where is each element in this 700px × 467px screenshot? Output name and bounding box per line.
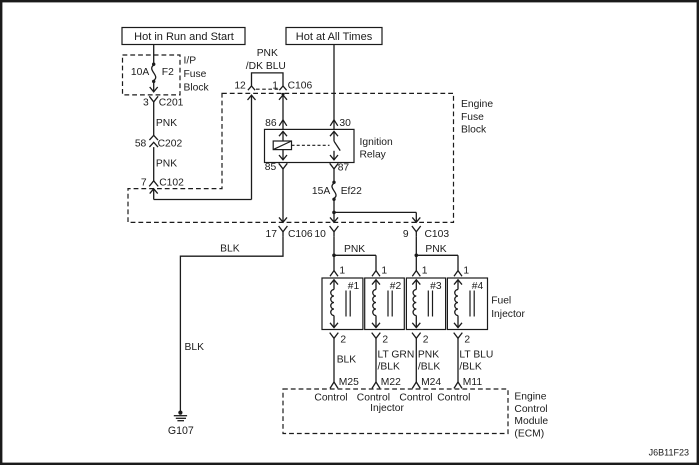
- svg-text:BLK: BLK: [220, 243, 240, 254]
- wire injector #3 to ECM: [415, 342, 417, 382]
- svg-text:Module: Module: [514, 416, 548, 427]
- svg-text:PNK: PNK: [156, 118, 177, 129]
- svg-text:Fuse: Fuse: [461, 112, 484, 123]
- svg-text:Ef22: Ef22: [341, 186, 362, 197]
- fuel injector #3 core: [427, 291, 429, 317]
- svg-text:/BLK: /BLK: [418, 362, 440, 373]
- ground G107: [178, 411, 182, 415]
- relay pin 85: [279, 163, 288, 169]
- svg-text:M25: M25: [339, 377, 359, 388]
- svg-text:85: 85: [265, 162, 277, 173]
- svg-text:C106: C106: [288, 80, 313, 91]
- svg-text:PNK: PNK: [425, 244, 446, 255]
- svg-text:J6B11F23: J6B11F23: [649, 448, 689, 458]
- fuel injector #3 box: [406, 278, 445, 330]
- wire injector #2 to ECM: [375, 342, 377, 382]
- ECM pin M25: [330, 382, 338, 388]
- svg-text:Control: Control: [399, 392, 432, 403]
- svg-text:17: 17: [266, 229, 278, 240]
- svg-text:1: 1: [463, 265, 469, 276]
- fuel injector #4 coil: [457, 280, 459, 290]
- fuel injector #1 pin 2: [330, 333, 339, 339]
- svg-text:C201: C201: [159, 97, 184, 108]
- relay pin 30: [330, 120, 338, 126]
- svg-text:58: 58: [135, 139, 147, 150]
- svg-text:Fuel: Fuel: [491, 295, 511, 306]
- relay coil: [273, 141, 291, 150]
- junction: [332, 211, 336, 215]
- svg-text:Control: Control: [514, 404, 547, 415]
- connector C106 pin 12: [248, 86, 255, 90]
- svg-text:C202: C202: [158, 139, 183, 150]
- svg-text:M11: M11: [463, 377, 483, 388]
- fuel injector #1 core: [345, 291, 347, 317]
- svg-text:Hot in Run and Start: Hot in Run and Start: [134, 31, 234, 43]
- svg-text:Hot at All Times: Hot at All Times: [296, 31, 373, 43]
- fuel injector #2 pin 2: [372, 333, 381, 339]
- svg-text:Ignition: Ignition: [360, 137, 393, 148]
- svg-text:15A: 15A: [312, 186, 330, 197]
- svg-text:PNK: PNK: [257, 48, 278, 59]
- jumper loop PNK/DK BLU pin 12 to pin 1: [252, 73, 284, 86]
- wire relay 85 down to C106 pin 17: [282, 169, 284, 222]
- svg-text:30: 30: [339, 118, 351, 129]
- ECM pin M24: [412, 382, 420, 388]
- svg-text:(ECM): (ECM): [514, 428, 544, 439]
- svg-text:#3: #3: [430, 281, 442, 292]
- svg-text:BLK: BLK: [337, 355, 357, 366]
- svg-text:2: 2: [423, 335, 429, 346]
- fuse Ef22 15A: [332, 181, 335, 184]
- svg-text:Fuse: Fuse: [184, 69, 207, 80]
- fuel injector #2 pin 1: [372, 271, 380, 277]
- wire injector #1 to ECM: [333, 342, 335, 382]
- connector C102 pin 7: [149, 181, 158, 187]
- fuel injector #4 pin 1: [454, 271, 462, 277]
- svg-text:1: 1: [422, 265, 428, 276]
- svg-text:1: 1: [381, 265, 387, 276]
- relay pin 87: [330, 163, 339, 169]
- ECM pin M22: [372, 382, 380, 388]
- fuel injector #1 coil: [333, 280, 335, 290]
- svg-text:/BLK: /BLK: [459, 362, 481, 373]
- svg-text:I/P: I/P: [184, 55, 197, 66]
- fuel injector #1 pin 1: [330, 271, 338, 277]
- connector C103 pin 9: [412, 226, 421, 232]
- power label box: Hot at All Times: [286, 28, 382, 45]
- svg-text:PNK: PNK: [156, 158, 177, 169]
- connector C201 pin 3: [149, 96, 158, 102]
- relay switch: [333, 131, 335, 141]
- wire branch to C103 pin 9: [334, 211, 416, 213]
- svg-text:1: 1: [339, 265, 345, 276]
- svg-text:Control: Control: [314, 392, 347, 403]
- fuse F2 10A: [152, 62, 155, 65]
- svg-text:G107: G107: [168, 425, 194, 437]
- svg-text:Engine: Engine: [514, 392, 546, 403]
- svg-text:PNK: PNK: [418, 350, 439, 361]
- wire C102 to pin 12 riser: [154, 199, 252, 201]
- svg-text:/DK BLU: /DK BLU: [246, 61, 286, 72]
- relay pin 86: [279, 120, 287, 126]
- svg-text:C106: C106: [288, 229, 313, 240]
- svg-text:9: 9: [403, 229, 409, 240]
- svg-text:M22: M22: [381, 377, 401, 388]
- svg-text:10A: 10A: [131, 67, 149, 78]
- I/P fuse block dashed box: [123, 55, 181, 95]
- svg-text:LT GRN: LT GRN: [378, 350, 415, 361]
- fuel injector #4 pin 2: [454, 333, 463, 339]
- svg-text:C103: C103: [425, 229, 450, 240]
- svg-text:F2: F2: [162, 67, 174, 78]
- wire injector #4 to ECM: [457, 342, 459, 382]
- arrow into C102 from engine fuse block: [153, 189, 155, 200]
- connector C106 pin 1: [279, 86, 286, 90]
- fuel injector #1 box: [322, 278, 363, 330]
- PNK feed wire C103 pin 9 to injectors 3 and 4: [415, 236, 417, 270]
- svg-text:Injector: Injector: [370, 403, 404, 414]
- ECM dashed box: [283, 389, 508, 434]
- svg-text:Control: Control: [357, 392, 390, 403]
- svg-text:Engine: Engine: [461, 99, 493, 110]
- svg-text:M24: M24: [421, 377, 441, 388]
- svg-text:2: 2: [382, 335, 388, 346]
- connector C106 pin 17: [279, 226, 288, 232]
- connector C202 pin 58: [149, 135, 158, 140]
- connector C106 body dashes: [256, 88, 279, 90]
- wire PNK C202 to C102: [153, 147, 155, 181]
- wire fuse to C106 pin 10: [333, 199, 335, 222]
- wire relay 87 to fuse Ef22: [333, 169, 335, 182]
- fuel injector #2 box: [365, 278, 405, 330]
- wire PNK C201 to C202: [153, 102, 155, 135]
- svg-text:3: 3: [143, 97, 149, 108]
- relay link dashed: [292, 144, 330, 146]
- arrow into C201: [153, 83, 155, 92]
- svg-text:PNK: PNK: [344, 244, 365, 255]
- svg-text:Relay: Relay: [360, 150, 387, 161]
- svg-text:2: 2: [464, 335, 470, 346]
- fuel injector #3 pin 1: [412, 271, 420, 277]
- wire Hot at All Times to relay pin 30: [333, 45, 335, 130]
- fuel injector #2 coil: [375, 280, 377, 290]
- svg-text:Injector: Injector: [491, 309, 525, 320]
- ignition relay box U1: [265, 129, 355, 162]
- svg-text:BLK: BLK: [185, 342, 205, 353]
- svg-text:#2: #2: [390, 281, 402, 292]
- connector C106 pin 10: [330, 226, 339, 232]
- wire C106 pin 1 to relay pin 86: [282, 93, 285, 96]
- wire riser to C106 pin 12: [251, 95, 253, 199]
- engine fuse block dashed outline: [128, 93, 454, 222]
- power label box: Hot in Run and Start: [122, 28, 245, 45]
- fuel injector #3 coil: [415, 280, 417, 290]
- svg-text:10: 10: [314, 229, 326, 240]
- svg-text:#4: #4: [472, 281, 484, 292]
- fuel injector #3 pin 2: [412, 333, 421, 339]
- svg-text:Block: Block: [461, 124, 487, 135]
- fuel injector #2 core: [387, 291, 389, 317]
- relay coil arrows: [282, 131, 284, 141]
- fuel injector #4 box: [447, 278, 487, 330]
- BLK wire pin 17 to ground: [180, 236, 283, 411]
- svg-text:7: 7: [141, 178, 147, 189]
- svg-text:#1: #1: [348, 281, 360, 292]
- svg-text:Control: Control: [437, 392, 470, 403]
- fuel injector #4 core: [469, 291, 471, 317]
- wire from Hot in Run and Start to I/P fuse block: [153, 45, 155, 63]
- svg-text:2: 2: [340, 335, 346, 346]
- PNK feed wire C106 pin 10 to injectors 1 and 2: [333, 236, 335, 270]
- ECM pin M11: [454, 382, 462, 388]
- svg-text:C102: C102: [159, 178, 184, 189]
- svg-text:/BLK: /BLK: [378, 362, 400, 373]
- svg-text:86: 86: [265, 118, 277, 129]
- svg-text:Block: Block: [184, 82, 210, 93]
- svg-text:LT BLU: LT BLU: [459, 350, 493, 361]
- svg-text:12: 12: [234, 80, 246, 91]
- svg-text:87: 87: [338, 162, 350, 173]
